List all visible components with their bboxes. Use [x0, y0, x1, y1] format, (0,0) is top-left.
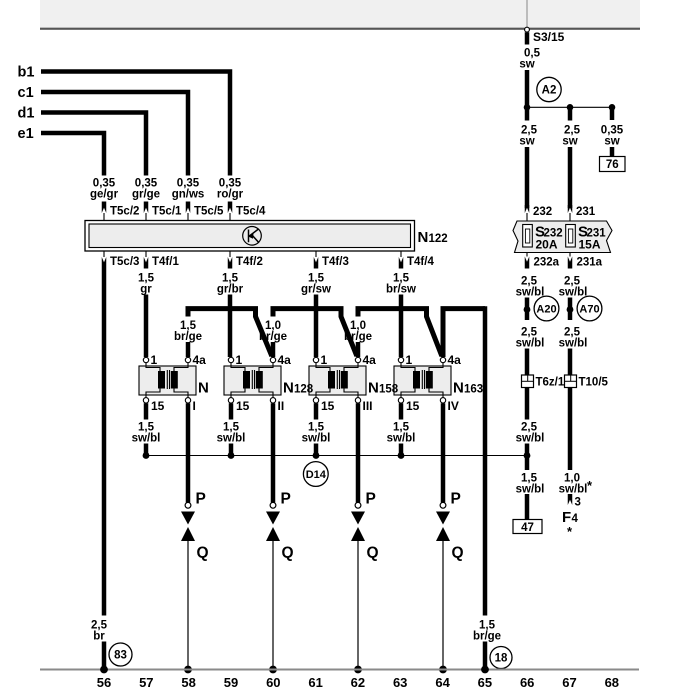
wire 1,5 br/ge to ground rail (lower)	[483, 642, 488, 670]
svg-text:sw: sw	[562, 136, 577, 148]
connector notch at fuse terminal 231	[568, 205, 573, 213]
svg-text:br/sw: br/sw	[386, 284, 416, 296]
svg-text:N: N	[198, 380, 209, 397]
svg-text:D14: D14	[306, 469, 327, 481]
wire 2,5 br to ground rail	[102, 642, 107, 670]
svg-text:sw/bl: sw/bl	[516, 433, 545, 445]
diagnostic K symbol in circle	[243, 227, 262, 246]
svg-text:sw: sw	[604, 136, 619, 148]
spark connector circle (cyl I)	[185, 502, 191, 508]
svg-text:Q: Q	[452, 545, 464, 562]
svg-text:232: 232	[533, 206, 552, 218]
svg-text:232a: 232a	[534, 257, 560, 269]
svg-text:Q: Q	[282, 545, 294, 562]
svg-text:c1: c1	[18, 85, 34, 101]
coil N163 terminal 15	[398, 398, 403, 403]
coil N128 internal connections	[231, 363, 273, 398]
coil ground rail to D14	[146, 455, 527, 457]
svg-text:56: 56	[97, 675, 111, 690]
wire 1,5 sw/bl from coil N128 terminal 15	[229, 403, 234, 419]
wire into control unit from T5c/1	[145, 213, 147, 221]
svg-text:4a: 4a	[363, 353, 377, 367]
svg-text:4a: 4a	[448, 353, 462, 367]
connector Q (cyl I)	[181, 527, 195, 541]
wire 0,35 sw to node 76	[610, 147, 615, 157]
junction A2 designation circle	[537, 77, 561, 101]
ground rail junction dot (cyl I)	[184, 666, 192, 674]
coil N158 internal connections	[316, 363, 358, 398]
wire from spark plug Q (cyl I) to ground rail	[187, 541, 189, 669]
input wire c1	[41, 92, 188, 176]
junction dot right	[609, 104, 616, 111]
svg-text:sw/bl: sw/bl	[516, 338, 545, 350]
coil N158 core lines	[336, 370, 338, 389]
wire 4a bus: coil N158 riser and bar to N163	[358, 309, 442, 356]
svg-text:gr/br: gr/br	[217, 284, 244, 296]
connector notch at fuse output 232a	[525, 257, 530, 269]
svg-text:T4f/2: T4f/2	[236, 256, 263, 268]
junction designation circle D14	[303, 462, 328, 487]
svg-text:158: 158	[379, 384, 399, 396]
wire 2,5 br (ground wire from T5c/3)	[102, 269, 107, 616]
ground junction dot (2,5 br wire)	[100, 666, 108, 674]
coil N128 terminal 15	[228, 398, 233, 403]
svg-text:sw: sw	[519, 59, 534, 71]
wire 2,5 sw/bl below T6z/1	[525, 388, 530, 420]
node reference box 76	[600, 157, 626, 172]
svg-text:62: 62	[351, 675, 365, 690]
svg-text:sw/bl: sw/bl	[387, 433, 416, 445]
svg-text:A2: A2	[542, 85, 557, 97]
coil N158 secondary winding	[341, 371, 348, 389]
coil N163 internal connections	[401, 363, 443, 398]
wire 1,5 sw/bl below junction	[525, 456, 530, 471]
input wire d1	[41, 113, 146, 176]
svg-text:Q: Q	[367, 545, 379, 562]
coil N terminal 1	[143, 357, 148, 362]
wire through fuse S232	[526, 213, 528, 257]
junction dot on rail (coil N128)	[228, 452, 235, 459]
junction dot left	[524, 104, 531, 111]
svg-text:P: P	[366, 491, 376, 508]
wire 4a bus: coil N163 riser and bar to ground wire	[443, 309, 485, 357]
svg-text:ge/gr: ge/gr	[90, 189, 119, 201]
wire 1,5 sw/bl from coil N163 terminal 15	[399, 403, 404, 419]
wire to D14 rail (coil N)	[144, 444, 149, 456]
ground rail junction dot (cyl III)	[354, 666, 362, 674]
ground rail (bottom)	[40, 669, 639, 671]
input wire e1	[41, 133, 104, 176]
svg-text:67: 67	[562, 675, 576, 690]
connector notch T5c/3	[102, 257, 107, 269]
coil N terminal 15	[143, 398, 148, 403]
svg-text:T5c/1: T5c/1	[152, 206, 182, 218]
node reference box 47	[513, 520, 542, 534]
current track numbers 56-68	[97, 675, 619, 690]
svg-text:83: 83	[114, 650, 127, 662]
svg-text:N: N	[283, 380, 294, 397]
wire 1,5 gr/sw to ignition coil terminal 1	[314, 295, 319, 358]
wire into control unit from T5c/4	[229, 213, 231, 221]
control unit N122 inner box	[89, 224, 411, 248]
coil N secondary winding	[171, 371, 178, 389]
ignition coil N128 body	[224, 366, 281, 395]
wire riser to coil N terminal 4a	[186, 342, 191, 357]
wire out of control unit to T4f/2	[229, 251, 231, 257]
junction dot middle	[567, 104, 574, 111]
junction dot A70	[567, 306, 574, 313]
svg-text:sw/bl: sw/bl	[559, 287, 588, 299]
svg-text:3: 3	[575, 497, 581, 509]
svg-text:15: 15	[151, 399, 165, 413]
svg-text:Q: Q	[197, 545, 209, 562]
connector notch T5c/4	[228, 202, 233, 214]
wire inside supply rail at S3/15 tap	[526, 0, 528, 27]
coil N163 terminal 1	[398, 357, 403, 362]
svg-text:N: N	[418, 229, 429, 246]
wire 2,5 sw/bl below T10/5	[568, 388, 573, 471]
wire 1,5 br/sw to ignition coil terminal 1	[399, 295, 404, 358]
wire 4a bus: coil N riser and bar to N128	[188, 309, 272, 356]
junction dot A20	[524, 306, 531, 313]
svg-text:*: *	[567, 524, 573, 539]
svg-text:128: 128	[294, 384, 314, 396]
svg-text:P: P	[281, 491, 291, 508]
svg-text:A70: A70	[579, 304, 599, 316]
svg-text:T5c/2: T5c/2	[110, 206, 139, 218]
wire riser to coil N158 terminal 4a	[356, 342, 361, 357]
svg-text:sw/bl: sw/bl	[302, 433, 331, 445]
svg-text:65: 65	[478, 675, 492, 690]
svg-text:58: 58	[181, 675, 195, 690]
svg-text:122: 122	[429, 233, 448, 245]
junction dot on rail (coil N)	[143, 452, 150, 459]
ground junction circle 83	[109, 643, 132, 666]
connector notch T4f/4	[399, 257, 404, 269]
svg-text:gn/ws: gn/ws	[172, 189, 205, 201]
wire 0,5 sw from S3/15	[525, 32, 530, 44]
spark connector circle (cyl III)	[355, 502, 361, 508]
high tension wire from coil N163 output IV	[441, 403, 446, 502]
ground rail junction dot (cyl II)	[269, 666, 277, 674]
coil N primary winding	[158, 371, 165, 389]
connector notch T5c/2	[102, 202, 107, 214]
wire from spark plug Q (cyl III) to ground rail	[357, 541, 359, 669]
bus bar / terminal 15 supply rail (top band)	[40, 0, 640, 27]
svg-text:N: N	[453, 380, 464, 397]
svg-text:15: 15	[236, 399, 250, 413]
coil N163 primary winding	[413, 371, 420, 389]
svg-text:231a: 231a	[577, 257, 603, 269]
svg-text:ro/gr: ro/gr	[217, 189, 244, 201]
ignition coil N158 body	[309, 366, 366, 395]
svg-text:br/ge: br/ge	[344, 331, 372, 343]
connector notch T4f/3	[314, 257, 319, 269]
svg-text:15: 15	[406, 399, 420, 413]
connector Q (cyl IV)	[436, 527, 450, 541]
wire 4a bus: coil N128 riser and bar to N158	[273, 309, 357, 356]
inline connector T10/5 symbol	[565, 375, 577, 388]
connector notch T5c/5	[186, 202, 191, 214]
wire 2,5 sw/bl through junction A20	[525, 298, 530, 321]
svg-text:sw/bl: sw/bl	[516, 287, 545, 299]
ground junction dot (1,5 br/ge wire)	[481, 666, 489, 674]
svg-text:gr: gr	[140, 284, 152, 296]
svg-text:IV: IV	[448, 399, 459, 413]
svg-text:1: 1	[406, 353, 413, 367]
svg-text:br: br	[93, 631, 105, 643]
wire from spark plug Q (cyl II) to ground rail	[272, 541, 274, 669]
coil N core lines	[166, 370, 168, 389]
junction dot on rail (coil N163)	[398, 452, 405, 459]
svg-text:T5c/3: T5c/3	[110, 256, 139, 268]
svg-text:sw/bl: sw/bl	[559, 484, 588, 496]
svg-text:1: 1	[236, 353, 243, 367]
spark connector circle (cyl II)	[270, 502, 276, 508]
svg-text:*: *	[587, 478, 593, 493]
svg-text:64: 64	[435, 675, 450, 690]
svg-text:sw: sw	[519, 136, 534, 148]
coil N158 terminal 15	[313, 398, 318, 403]
coil N163 output terminal IV	[440, 398, 445, 403]
fuse S231 15A symbol	[566, 225, 576, 248]
svg-text:1: 1	[321, 353, 328, 367]
input wire b1	[41, 72, 230, 176]
svg-text:A20: A20	[536, 304, 556, 316]
wire out of control unit to T4f/4	[400, 251, 402, 257]
wire 1,5 gr/br to ignition coil terminal 1	[228, 295, 233, 358]
fuse holder panel	[513, 221, 612, 253]
svg-text:e1: e1	[18, 126, 34, 142]
wire to D14 rail (coil N158)	[314, 444, 319, 456]
wire to D14 rail (coil N128)	[229, 444, 234, 456]
svg-text:T10/5: T10/5	[579, 376, 609, 388]
inline connector T6z/1 symbol	[522, 375, 534, 388]
svg-text:4a: 4a	[278, 353, 292, 367]
svg-text:57: 57	[139, 675, 153, 690]
coil N163 terminal 4a	[440, 357, 445, 362]
svg-text:sw/bl: sw/bl	[516, 484, 545, 496]
svg-text:66: 66	[520, 675, 534, 690]
wire 2,5 sw to fuse S232	[525, 147, 530, 208]
high tension wire from coil N output I	[186, 403, 191, 502]
svg-text:59: 59	[224, 675, 238, 690]
coil N158 output terminal III	[355, 398, 360, 403]
svg-text:III: III	[363, 399, 373, 413]
svg-text:61: 61	[308, 675, 322, 690]
wire into control unit from T5c/2	[103, 213, 105, 221]
wire to junction with coil ground rail	[525, 444, 530, 457]
svg-text:47: 47	[521, 522, 534, 534]
wire 1,0 sw/bl to terminal 3 of F4	[568, 494, 573, 505]
wire 2,5 sw stub (fuse S232 branch)	[525, 107, 530, 120]
wire 2,5 sw to fuse S231	[568, 147, 573, 208]
coil N128 terminal 1	[228, 357, 233, 362]
svg-text:4a: 4a	[193, 353, 207, 367]
coil N163 secondary winding	[426, 371, 433, 389]
ground junction circle 18	[490, 647, 512, 669]
svg-text:d1: d1	[18, 106, 35, 122]
svg-text:T4f/3: T4f/3	[322, 256, 349, 268]
wire 2,5 sw/bl to connector	[525, 349, 530, 376]
svg-text:br/ge: br/ge	[174, 331, 202, 343]
wire 1,5 gr to ignition coil terminal 1	[144, 295, 149, 358]
high tension wire from coil N158 output III	[356, 403, 361, 502]
control unit N122 outer box	[85, 221, 415, 252]
svg-text:I: I	[193, 399, 196, 413]
connector Q (cyl II)	[266, 527, 280, 541]
connector Q (cyl III)	[351, 527, 365, 541]
svg-text:76: 76	[606, 159, 619, 171]
connector notch at fuse output 231a	[568, 257, 573, 269]
coil N163 core lines	[421, 370, 423, 389]
svg-text:gr/sw: gr/sw	[301, 284, 331, 296]
svg-text:b1: b1	[18, 65, 35, 81]
connector notch T4f/2	[228, 257, 233, 269]
junction designation circle A70	[577, 296, 602, 321]
coil N158 primary winding	[328, 371, 335, 389]
junction dot on D14 rail (right end)	[524, 452, 531, 459]
svg-text:II: II	[278, 399, 285, 413]
wire 1,5 sw/bl from coil N158 terminal 15	[314, 403, 319, 419]
fuse S232 20A symbol	[523, 225, 533, 248]
connector notch T5c/1	[144, 202, 149, 214]
svg-text:1: 1	[151, 353, 158, 367]
svg-text:N: N	[368, 380, 379, 397]
wire out of control unit to T4f/1	[145, 251, 147, 257]
wire 2,5 sw/bl through junction A70	[568, 298, 573, 321]
svg-text:T4f/4: T4f/4	[407, 256, 434, 268]
high tension wire from coil N128 output II	[271, 403, 276, 502]
wire to D14 rail (coil N163)	[399, 444, 404, 456]
coil N internal connections	[146, 363, 188, 398]
svg-text:T6z/1: T6z/1	[536, 376, 565, 388]
ground rail junction dot (cyl IV)	[439, 666, 447, 674]
ignition coil N163 body	[394, 366, 451, 395]
coil N128 core lines	[251, 370, 253, 389]
wire 1,5 br/ge down to ground rail	[483, 306, 488, 615]
svg-text:gr/ge: gr/ge	[132, 189, 160, 201]
svg-text:S3/15: S3/15	[533, 30, 565, 44]
svg-text:60: 60	[266, 675, 280, 690]
svg-text:68: 68	[605, 675, 619, 690]
coil N output terminal I	[185, 398, 190, 403]
wire into control unit from T5c/5	[187, 213, 189, 221]
wire 0,5 sw continues to junction A2	[525, 70, 530, 107]
svg-text:T4f/1: T4f/1	[152, 256, 179, 268]
wire riser to coil N128 terminal 4a	[271, 342, 276, 357]
svg-text:T5c/5: T5c/5	[194, 206, 224, 218]
svg-text:T5c/4: T5c/4	[236, 206, 266, 218]
wire 1,5 sw/bl to node 47	[525, 494, 530, 520]
wire out of control unit to T4f/3	[315, 251, 317, 257]
coil N128 terminal 4a	[270, 357, 275, 362]
wire through fuse S231	[569, 213, 571, 257]
svg-text:163: 163	[464, 384, 483, 396]
svg-text:18: 18	[495, 653, 508, 665]
coil N158 terminal 1	[313, 357, 318, 362]
coil N128 output terminal II	[270, 398, 275, 403]
connector notch at fuse terminal 232	[525, 205, 530, 213]
svg-text:231: 231	[576, 206, 596, 218]
coil N158 terminal 4a	[355, 357, 360, 362]
svg-text:20A: 20A	[535, 238, 557, 252]
svg-text:br/ge: br/ge	[259, 331, 287, 343]
svg-text:P: P	[451, 491, 461, 508]
connector notch T4f/1	[144, 257, 149, 269]
junction designation circle A20	[534, 296, 559, 321]
junction dot on rail (coil N158)	[313, 452, 320, 459]
svg-text:sw/bl: sw/bl	[559, 338, 588, 350]
coil N terminal 4a	[185, 357, 190, 362]
svg-text:4: 4	[572, 513, 579, 525]
wire 0,35 sw stub (branch to 76)	[610, 107, 615, 120]
svg-text:sw/bl: sw/bl	[217, 433, 246, 445]
svg-text:sw/bl: sw/bl	[132, 433, 161, 445]
svg-text:15: 15	[321, 399, 335, 413]
wire 2,5 sw/bl to connector	[568, 349, 573, 376]
coil N128 primary winding	[243, 371, 250, 389]
junction rail at A2 (horizontal)	[527, 106, 612, 108]
svg-text:P: P	[196, 491, 206, 508]
svg-text:63: 63	[393, 675, 407, 690]
coil N128 secondary winding	[256, 371, 263, 389]
spark connector circle (cyl IV)	[440, 502, 446, 508]
node S3/15 tap circle	[525, 27, 530, 32]
wire 2,5 sw stub (fuse S231 branch)	[568, 107, 573, 120]
wire 1,5 sw/bl from coil N terminal 15	[144, 403, 149, 419]
svg-text:br/ge: br/ge	[473, 631, 501, 643]
wire out of control unit to T5c/3	[103, 251, 105, 257]
svg-text:15A: 15A	[578, 238, 600, 252]
wire from spark plug Q (cyl IV) to ground rail	[442, 541, 444, 669]
ignition coil N body	[139, 366, 196, 395]
